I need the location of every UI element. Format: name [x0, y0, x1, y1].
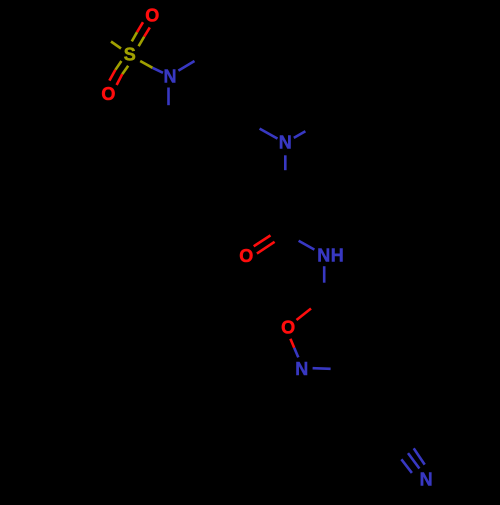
- svg-text:N: N: [420, 469, 433, 489]
- bond C4-N2 (half visible): [260, 129, 278, 139]
- svg-text:H: H: [331, 246, 344, 266]
- bond C5-O4 (isoxazole, half visible): [297, 309, 312, 321]
- bond S=O1 double line b: [139, 37, 145, 47]
- bond S-N1: [140, 61, 152, 68]
- bond N5=C3 (half visible): [313, 367, 331, 370]
- bond N1-C6 (half visible): [167, 88, 170, 106]
- svg-text:O: O: [281, 318, 295, 338]
- bond N1-C2 (half visible): [178, 61, 194, 71]
- svg-text:N: N: [164, 67, 177, 87]
- bond C=O3 double line b (carbonyl): [257, 242, 275, 254]
- svg-text:N: N: [317, 246, 330, 266]
- svg-text:N: N: [295, 359, 308, 379]
- bond S=O2 double line a: [115, 61, 121, 70]
- bond NH-C5 (half visible): [323, 266, 326, 283]
- svg-text:O: O: [239, 246, 253, 266]
- bond N2-CH3 (half visible): [294, 131, 306, 138]
- bond N2-CH2 (half visible): [284, 155, 287, 170]
- svg-text:O: O: [101, 84, 115, 104]
- bond C#N triple line b (nitrile): [408, 453, 419, 468]
- svg-text:N: N: [279, 133, 292, 153]
- bond S=O2 double line b: [122, 66, 128, 74]
- bond C-NH (half visible): [299, 241, 315, 250]
- svg-text:S: S: [124, 45, 136, 65]
- bond O4-N5 (isoxazole O-N): [290, 339, 294, 348]
- bond S-CH3 (methyl, half visible): [111, 42, 121, 49]
- bond S=O1 double line a: [132, 32, 137, 41]
- bond C#N triple line c (nitrile): [401, 459, 412, 473]
- svg-text:O: O: [145, 6, 159, 26]
- bond C#N triple line a (nitrile): [414, 448, 425, 464]
- bond C=O3 double line a (carbonyl): [254, 235, 271, 246]
